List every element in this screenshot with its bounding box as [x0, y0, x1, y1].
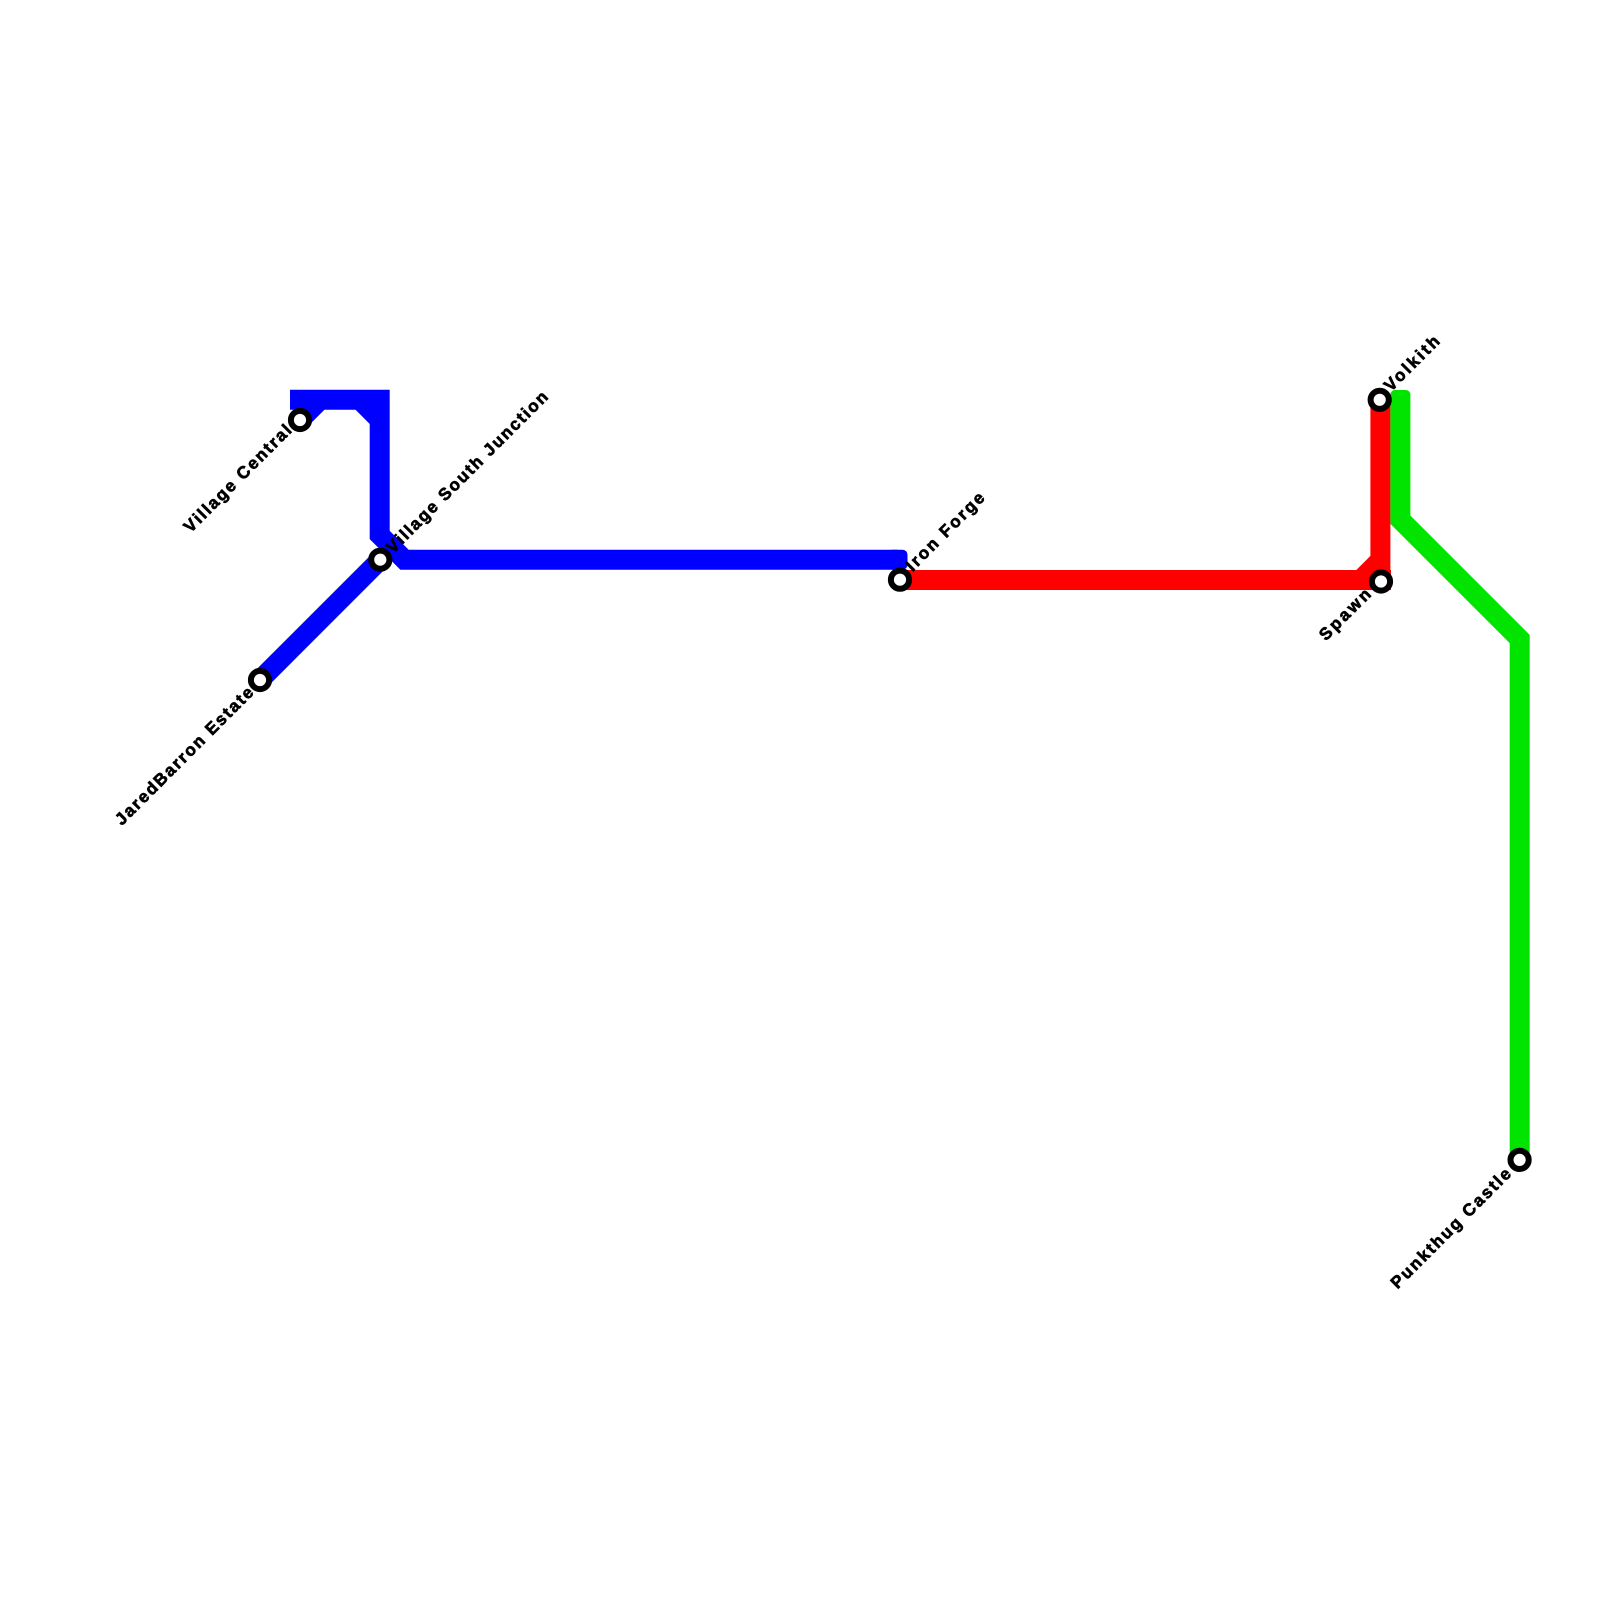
station JaredBarron Estate	[251, 671, 269, 689]
station Punkthug Castle	[1511, 1151, 1529, 1169]
station Village Central	[291, 411, 309, 429]
red vertical: Spawn to Volkith	[1370, 400, 1390, 585]
blue line main: Village Central corridor to Iron Forge	[290, 400, 898, 560]
station Iron Forge	[891, 571, 909, 589]
station Volkith	[1371, 391, 1389, 409]
station Spawn	[1372, 572, 1390, 590]
blue branch to JaredBarron Estate	[265, 560, 381, 676]
blue line end cap at Iron Forge side	[888, 550, 908, 570]
blue connector Village Central diagonal	[300, 400, 320, 420]
blue corner chamfer segment	[360, 400, 380, 420]
red corner diagonal at Spawn	[1361, 560, 1381, 580]
red line horizontal: Iron Forge to Spawn	[900, 570, 1391, 590]
green top rounded cap	[1390, 390, 1410, 404]
green line: Volkith to Punkthug Castle	[1400, 400, 1519, 1160]
station Village South Junction	[371, 551, 389, 569]
